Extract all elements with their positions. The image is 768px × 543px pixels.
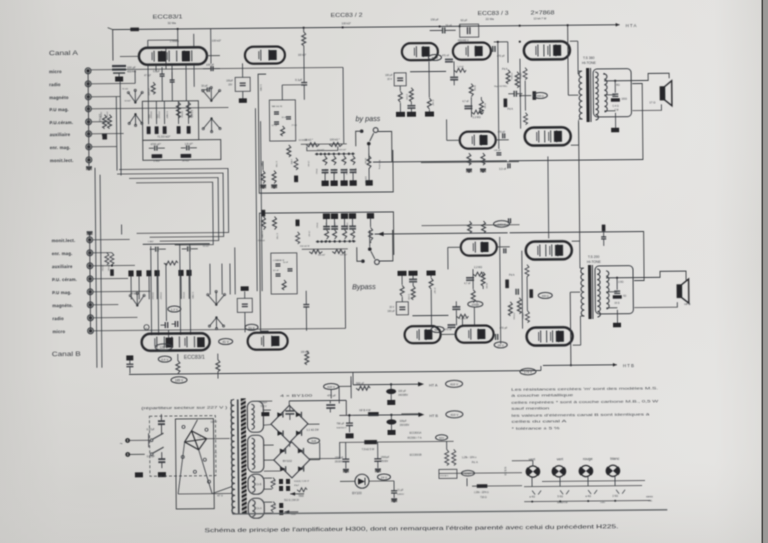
psu top wire [253, 399, 346, 402]
svg-text:5 6Ω: 5 6Ω [557, 494, 563, 498]
network box A1 [142, 101, 198, 141]
svg-text:100µF: 100µF [226, 79, 233, 82]
svg-text:100 kΩ*: 100 kΩ* [212, 39, 221, 43]
resistor bank B boxes2 [178, 270, 191, 299]
tube V7 7868 no2 [525, 127, 571, 145]
comb leg5 B [367, 213, 374, 243]
bank B long verticals [151, 244, 191, 335]
svg-text:4,7 nF: 4,7 nF [464, 283, 471, 285]
wire bus A-B link1 [119, 168, 229, 233]
labels stage2 B [300, 246, 310, 248]
svg-text:50 µF: 50 µF [446, 24, 453, 27]
svg-text:95 Ω: 95 Ω [273, 480, 275, 485]
output terminal vert1 [526, 466, 541, 477]
choke/resistor NF [359, 408, 378, 416]
label bypass B [352, 282, 376, 291]
tube V1 ECC83/1 canal A [139, 47, 207, 65]
svg-text:100 kΩ*: 100 kΩ* [340, 254, 348, 256]
svg-text:HT B: HT B [429, 414, 438, 418]
capacitor C18 796uF [336, 414, 353, 438]
label RC550 [408, 435, 448, 441]
svg-text:512 Ω | 3W 2V: 512 Ω | 3W 2V [284, 500, 299, 502]
splitter rail B [421, 218, 519, 225]
transformer T3 primary coil [231, 399, 239, 513]
value labels canal B [101, 222, 349, 355]
comb junction dots [315, 153, 355, 156]
svg-text:110 V: 110 V [210, 420, 217, 424]
cathode box V9 100uF [237, 286, 252, 332]
oval 415 top [324, 383, 339, 398]
transformer T1 core [586, 68, 591, 122]
comb leg5 [364, 154, 373, 186]
label TU [198, 437, 202, 439]
svg-text:10 nF: 10 nF [283, 262, 289, 264]
resistor R7 220k [176, 102, 180, 118]
transformer T2 primary coil [581, 268, 585, 316]
svg-text:1 MΩ*: 1 MΩ* [148, 241, 154, 243]
svg-text:10 kΩ*: 10 kΩ* [124, 100, 131, 102]
tube heading ECC83/3 [477, 11, 508, 21]
tube heading 2x7868 [530, 10, 554, 20]
svg-text:2,2 MΩ: 2,2 MΩ [473, 116, 481, 119]
svg-text:magnéto.: magnéto. [52, 303, 73, 308]
capacitor C7B [303, 291, 309, 331]
wire magneto A [91, 96, 120, 98]
svg-text:4,7 kΩ: 4,7 kΩ [276, 233, 278, 240]
svg-text:51 V: 51 V [248, 326, 254, 330]
wire magneto B [93, 304, 118, 306]
selector wafer S1d [128, 113, 143, 126]
svg-text:1 MΩ*: 1 MΩ* [153, 159, 160, 163]
speaker wire bottom B [634, 302, 677, 307]
capacitor C23 100uF HT A [386, 383, 409, 405]
svg-text:radio: radio [600, 501, 606, 504]
resistor R4 1M [152, 155, 162, 163]
svg-text:100 kΩ: 100 kΩ [99, 112, 101, 119]
rail drop node 1 [177, 25, 521, 31]
svg-text:62V: 62V [439, 436, 444, 440]
resistor R1 on rail [131, 27, 222, 64]
pot box VOCM [439, 469, 457, 478]
tube V5 ECC83/3-right [460, 131, 496, 148]
resistor ladder stage2 left2 [271, 171, 277, 189]
svg-text:by pass: by pass [355, 114, 380, 123]
svg-text:1,2 MΩ: 1,2 MΩ [261, 231, 263, 238]
selector wafer S1c [202, 117, 221, 132]
svg-text:RC550 / 7 A: RC550 / 7 A [408, 436, 422, 440]
svg-text:25/30V: 25/30V [381, 461, 389, 463]
svg-text:100 kΩ: 100 kΩ [346, 222, 348, 229]
tube V8 ECC83/1 canal B [142, 333, 210, 351]
svg-text:150 µF: 150 µF [431, 17, 440, 21]
svg-text:Pd A: Pd A [509, 273, 515, 277]
mains wires [130, 440, 150, 454]
heater winding Ch A taps [264, 502, 272, 513]
svg-text:100 kΩ*: 100 kΩ* [342, 21, 351, 25]
svg-text:HT A: HT A [429, 383, 438, 387]
cap 100uF label [260, 401, 269, 416]
svg-text:40µ2: 40µ2 [294, 485, 300, 487]
svg-text:3V8: 3V8 [311, 439, 316, 443]
resistor R24 mid [472, 484, 522, 487]
input jack labels canal A [49, 69, 74, 163]
resistor R23 [452, 449, 456, 465]
svg-text:100 kΩ*: 100 kΩ* [298, 55, 306, 57]
oval 185 [171, 377, 187, 384]
svg-text:39 kΩ: 39 kΩ [473, 85, 475, 91]
resistor R6 47k [147, 82, 156, 95]
svg-text:2,6Ω: 2,6Ω [618, 281, 624, 284]
svg-text:3,9 nF: 3,9 nF [273, 270, 279, 272]
svg-text:1,2 MΩ: 1,2 MΩ [259, 84, 261, 91]
wire puceram B [93, 277, 128, 279]
ground below jacks A [86, 162, 92, 170]
wire aux B [93, 264, 135, 267]
svg-text:8Ω: 8Ω [616, 83, 619, 87]
svg-text:415 V: 415 V [327, 385, 335, 389]
label ECC83-1B psu [410, 432, 422, 457]
svg-text:HP B: HP B [684, 302, 690, 306]
svg-text:102 V: 102 V [471, 302, 479, 306]
svg-text:1,2 kΩ: 1,2 kΩ [334, 222, 336, 228]
wire enr B [93, 252, 112, 254]
heater wire TR6 [290, 492, 304, 498]
trunk vertical pair A [116, 82, 121, 176]
svg-text:mic.: mic. [648, 499, 653, 502]
svg-text:Canal A: Canal A [49, 50, 79, 57]
selector wafer S1b [202, 86, 221, 101]
cathode parts left B [126, 355, 133, 373]
capacitor C13 135pF [494, 150, 502, 155]
svg-text:3,3 nF *: 3,3 nF * [499, 167, 508, 171]
svg-text:1,8 nF*: 1,8 nF* [185, 142, 193, 146]
feedback loop B wire [510, 232, 644, 282]
comb sub-wire [307, 146, 338, 150]
svg-text:enr. mag.: enr. mag. [50, 145, 71, 150]
label Canal A [49, 50, 79, 57]
supply rail HT A top [113, 23, 637, 33]
svg-text:C-4 Ω: C-4 Ω [612, 105, 619, 108]
svg-text:220 kΩ: 220 kΩ [180, 111, 182, 118]
transformer T3 sec winding2 [248, 435, 264, 472]
cathode join 7868 B [526, 277, 528, 311]
loop box stage2 B [259, 212, 394, 331]
capacitor C12 470pF [498, 131, 506, 139]
screen resistors 7868 [523, 68, 536, 125]
svg-text:51Ω(3) 7,1W 3*: 51Ω(3) 7,1W 3* [294, 481, 309, 483]
svg-text:270 kΩ*: 270 kΩ* [159, 292, 161, 300]
svg-text:100 kΩ: 100 kΩ [364, 176, 366, 183]
svg-text:13 kA 7 W: 13 kA 7 W [534, 16, 547, 20]
svg-text:VOCM 1: VOCM 1 [440, 475, 449, 477]
svg-text:1,25k - 10% x: 1,25k - 10% x [462, 456, 477, 459]
svg-text:4,7 kΩ: 4,7 kΩ [275, 161, 277, 168]
bridge rectifier B2 BY102 [274, 442, 310, 478]
transformer T3 left lead [231, 399, 232, 513]
svg-text:100Ω: 100Ω [621, 99, 627, 101]
heater labels B [294, 481, 309, 492]
svg-text:270 kΩ: 270 kΩ [105, 112, 107, 119]
svg-text:Pd A: Pd A [502, 67, 508, 71]
capacitor C21 1500uF b [374, 442, 390, 472]
input jacks canal B [87, 237, 94, 334]
wire bus A-B link2 [117, 173, 224, 238]
svg-text:15 V: 15 V [389, 307, 394, 309]
input jack labels canal B [52, 238, 78, 334]
svg-text:1,2 V: 1,2 V [171, 307, 178, 311]
oval C67 [461, 470, 474, 476]
labels in box A1 [147, 114, 158, 119]
comb left leg B [295, 220, 299, 244]
selector wires [177, 419, 232, 494]
svg-text:17 Ω: 17 Ω [649, 100, 655, 104]
bottom rail canal B [129, 369, 541, 380]
svg-text:H T B: H T B [623, 363, 634, 368]
svg-text:220 kΩ: 220 kΩ [182, 292, 184, 299]
bottom junction wire [524, 499, 650, 502]
mains switch S3 [149, 433, 164, 455]
svg-text:796 µF: 796 µF [336, 422, 344, 425]
svg-text:270 kΩ: 270 kΩ [107, 265, 109, 272]
svg-text:820 kΩ/mg: 820 kΩ/mg [378, 160, 380, 169]
svg-text:82 kΩ: 82 kΩ [364, 158, 366, 164]
cap on xfmr top B [601, 225, 606, 246]
svg-text:100 kΩ: 100 kΩ [101, 265, 103, 272]
svg-text:1,5 kΩ: 1,5 kΩ [325, 223, 327, 229]
tube V3 ECC83/2-right [402, 43, 438, 60]
terminal wires down [512, 460, 645, 487]
switch S2B [357, 230, 393, 265]
transformer T1 secondary coil [595, 72, 598, 120]
capacitor C1 100uF top-left [108, 27, 137, 81]
stage3 cluster canal B [387, 266, 524, 341]
svg-text:47 kΩ*: 47 kΩ* [144, 75, 151, 77]
secondary box B [595, 266, 633, 314]
wire bias right [457, 473, 522, 487]
cathode join 7868 [520, 81, 531, 111]
svg-text:4700 pF*: 4700 pF* [150, 142, 161, 146]
anode wires 7868 B [572, 241, 581, 345]
tube V12 ECC83/3-right B [461, 238, 497, 255]
grid network B [494, 220, 519, 343]
ground above jacks B [87, 232, 93, 238]
svg-text:blanc: blanc [610, 457, 619, 461]
svg-text:58 V: 58 V [432, 56, 438, 60]
svg-text:716 Ω: 716 Ω [480, 496, 487, 499]
transformer T3 core hatch [241, 398, 247, 514]
tone network box stage2 B [271, 253, 297, 294]
attenuator labels [102, 133, 104, 137]
comb junction dots B [316, 240, 356, 243]
caps in tone box [271, 105, 291, 136]
svg-text:100µF: 100µF [399, 420, 407, 423]
heater resistors A [271, 501, 283, 515]
svg-text:ECC83/1: ECC83/1 [184, 355, 205, 361]
resistor R19 1,5k grid1 [503, 57, 510, 107]
svg-text:16 Ω: 16 Ω [614, 302, 619, 305]
tube V9 ECC83/2-left B [248, 332, 288, 349]
svg-text:TAB 104,7Ω: TAB 104,7Ω [271, 105, 282, 108]
svg-text:100 µF: 100 µF [387, 310, 395, 313]
svg-text:100 µF: 100 µF [398, 390, 406, 393]
transformer T2 feed [569, 268, 585, 366]
label 1,1k 2W [306, 428, 319, 432]
svg-text:ECC83/1A: ECC83/1A [410, 432, 422, 435]
output terminal vert2 [552, 466, 567, 477]
splitter B parts [448, 221, 510, 270]
coupling caps to outputs [508, 91, 522, 97]
svg-text:HI-TONE: HI-TONE [587, 260, 602, 264]
svg-text:MONITOR: MONITOR [557, 502, 568, 504]
svg-text:100 kΩ*: 100 kΩ* [318, 255, 326, 257]
svg-text:radio: radio [49, 82, 61, 87]
svg-text:30 kΩ: 30 kΩ [485, 283, 487, 289]
tube V14 7868 B2 [527, 327, 573, 345]
wire bus A-B link4 [136, 182, 213, 245]
svg-text:BY100: BY100 [352, 491, 362, 495]
svg-text:4 × BY100: 4 × BY100 [280, 394, 312, 398]
transformer T1 TS360 label [582, 56, 597, 65]
svg-text:220 kΩ*: 220 kΩ* [149, 111, 151, 119]
capacitor C9 60uF box [458, 18, 479, 42]
scan shading mottle [0, 370, 350, 543]
capacitor C3B [182, 246, 198, 251]
svg-text:100 pF: 100 pF [206, 63, 215, 67]
oval 175 B [520, 368, 536, 375]
svg-text:6Ω: 6Ω [623, 296, 626, 298]
ground secondary A [611, 113, 619, 133]
svg-text:0,1µF: 0,1µF [295, 78, 303, 82]
svg-text:25/30V: 25/30V [335, 461, 343, 463]
svg-text:71,53 kΩ*: 71,53 kΩ* [157, 135, 171, 139]
HT B wire from rail [540, 366, 542, 370]
svg-text:10 nF: 10 nF [282, 117, 288, 119]
wire psu to right [401, 413, 421, 415]
svg-text:400/440 V: 400/440 V [458, 39, 469, 42]
wires tube A1 [120, 34, 221, 102]
label Canal B [52, 351, 81, 358]
svg-text:100 µF: 100 µF [127, 65, 136, 69]
svg-text:30 pF: 30 pF [201, 84, 208, 88]
terminal sub labels [529, 494, 618, 499]
caption [204, 524, 618, 534]
heater labels A [284, 500, 300, 516]
speaker wire top A [632, 73, 669, 80]
svg-text:a 4Ω: a 4Ω [585, 494, 591, 498]
resistor R9B [305, 350, 309, 365]
secondary parts B [613, 278, 627, 305]
svg-text:270 kΩ: 270 kΩ [512, 313, 514, 320]
svg-text:56 kΩ*: 56 kΩ* [203, 246, 210, 248]
svg-text:340/385V: 340/385V [398, 395, 408, 397]
switch S2 bypass [356, 128, 392, 165]
wire micro B [93, 250, 346, 342]
resistor R22 [445, 441, 449, 465]
svg-text:T.S 200: T.S 200 [588, 255, 600, 259]
oval 58V B [431, 326, 444, 332]
tube V2 ECC83/2-left canal A [245, 46, 285, 63]
svg-text:150 kΩ 'B': 150 kΩ 'B' [300, 246, 310, 248]
svg-text:470 µF: 470 µF [327, 393, 336, 397]
svg-text:27 kΩ: 27 kΩ [292, 125, 298, 127]
feedback loop A wire [508, 84, 643, 161]
capacitor C14 0,47uF upper [146, 414, 165, 434]
oval 126V [155, 344, 172, 351]
resistor R2 100k vertical [98, 114, 107, 129]
svg-text:ECC83 / 2: ECC83 / 2 [331, 13, 363, 19]
svg-text:220 kΩ*: 220 kΩ* [151, 292, 153, 300]
svg-text:820 Ω: 820 Ω [354, 168, 356, 174]
svg-text:410 V: 410 V [450, 382, 459, 386]
resistor under tube B 1 [176, 354, 180, 374]
svg-text:radio: radio [52, 316, 64, 321]
svg-text:0,47µF: 0,47µF [147, 454, 156, 458]
tube V11 ECC83/3-left B [456, 325, 494, 342]
svg-text:m: m [145, 327, 147, 330]
svg-text:1,5 kΩ: 1,5 kΩ [307, 161, 309, 167]
tube V4 ECC83/3-left [453, 42, 491, 59]
oval 24V [377, 474, 390, 480]
capacitor C3 1,8nF [181, 142, 197, 151]
output terminal rouge [579, 465, 594, 476]
svg-text:vert: vert [557, 457, 564, 461]
svg-text:4,7 nF: 4,7 nF [462, 101, 469, 103]
svg-text:magnéto: magnéto [49, 95, 69, 100]
oval 26V B [494, 342, 507, 348]
right page edge line [762, 0, 764, 543]
comb rail stage2 B [302, 248, 348, 250]
svg-text:H T A: H T A [626, 23, 637, 28]
tap wires A [603, 73, 632, 111]
svg-text:47 kΩ*: 47 kΩ* [431, 100, 433, 107]
selector harness B [210, 247, 235, 294]
transformer T1 feed [567, 24, 583, 119]
tube heading ECC83/2 [331, 13, 363, 26]
oval 51V B [245, 324, 258, 330]
oval 290V [308, 438, 320, 444]
svg-text:2,2 MΩ: 2,2 MΩ [189, 111, 191, 118]
stage3 B anode wires [440, 307, 474, 334]
svg-text:micro: micro [53, 329, 66, 334]
svg-text:24 V: 24 V [381, 475, 387, 479]
tube V13 7868 B1 [526, 241, 572, 259]
transformer T2 core [588, 265, 593, 319]
secondary parts A [611, 81, 628, 112]
comb feed wire B [375, 231, 508, 237]
resistor R5 56k [181, 154, 191, 162]
svg-text:stéréo: stéréo [646, 495, 653, 498]
transformer T3 sec winding4 [248, 498, 264, 518]
label bypass [355, 114, 380, 123]
wire PU ceram A [92, 121, 109, 123]
selector wafer S1f B [207, 290, 226, 305]
speaker wire bottom A [632, 104, 661, 110]
svg-text:500/550 V: 500/550 V [336, 427, 347, 429]
svg-text:185 V: 185 V [175, 378, 184, 382]
svg-text:* tolérance ± 5 %: * tolérance ± 5 % [511, 426, 560, 430]
svg-text:(répartiteur secteur sur 227 V: (répartiteur secteur sur 227 V ) [141, 406, 227, 411]
oval 0V6 [158, 356, 171, 362]
caption underline [203, 532, 619, 536]
HT feed wires [339, 400, 353, 415]
svg-text:Ch.B: Ch.B [256, 483, 262, 486]
svg-text:1 MΩ: 1 MΩ [290, 159, 292, 165]
marker m circle [144, 325, 149, 330]
svg-text:MµA 56/78Ω+: MµA 56/78Ω+ [494, 85, 508, 88]
wire radio A [91, 70, 135, 83]
mains terminal L [120, 439, 130, 448]
cap inside bridge1 [285, 405, 294, 420]
